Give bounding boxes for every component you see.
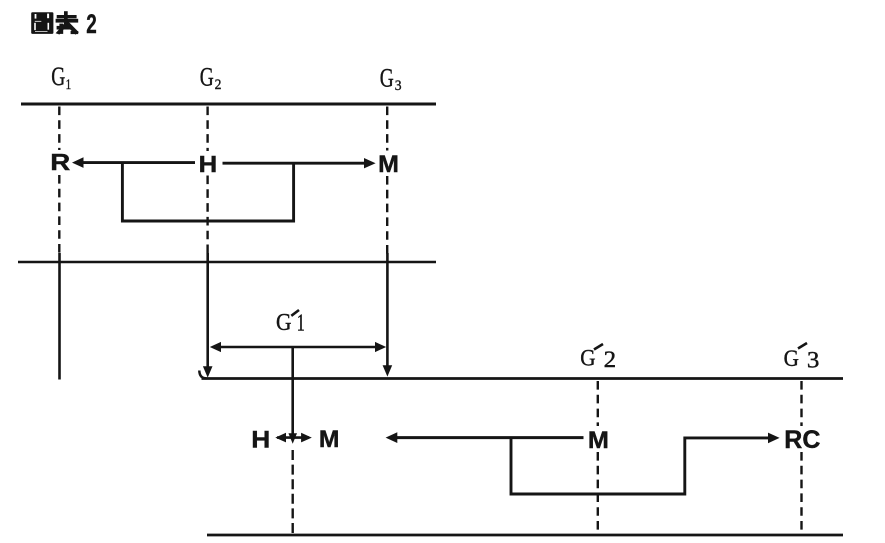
svg-text:2: 2 <box>86 9 97 39</box>
arrow M to left shaft <box>394 436 584 439</box>
timeline 3 left hook <box>199 371 206 379</box>
svg-text:2: 2 <box>604 347 617 372</box>
svg-text:G: G <box>784 346 799 371</box>
arrow M to left head <box>386 432 398 443</box>
dashed axis G2 lower <box>206 176 208 258</box>
timeline 2 <box>18 261 436 264</box>
svg-text:1: 1 <box>297 311 305 337</box>
timeline 3 <box>202 377 844 380</box>
twin arrow shaft <box>277 436 309 439</box>
accent of G'3 <box>798 343 807 349</box>
dashed axis mid lower <box>292 450 294 534</box>
label G'3 <box>784 346 820 372</box>
svg-text:M: M <box>588 427 609 454</box>
svg-text:G: G <box>200 63 214 92</box>
arrow H to M head <box>364 158 376 168</box>
svg-text:3: 3 <box>395 78 402 94</box>
loop under M and RC riser <box>511 438 770 494</box>
dashed axis G'2 upper <box>597 381 599 426</box>
twin arrow right head <box>301 433 312 443</box>
label G2 <box>200 63 222 94</box>
accent of G'1 <box>291 310 299 316</box>
solid drop G1 <box>58 253 61 380</box>
dashed axis G'2 lower <box>597 452 599 534</box>
accent of G'2 <box>594 344 603 350</box>
label G3 <box>380 64 402 95</box>
arrow to RC head <box>768 433 780 444</box>
loop under H <box>122 164 293 222</box>
solid drop G3 <box>386 253 389 367</box>
svg-text:H: H <box>251 427 270 454</box>
dashed axis G2 upper <box>206 107 208 152</box>
arrow H to R shaft <box>82 161 196 164</box>
title glyph 圖 <box>31 12 53 34</box>
title glyph 表 <box>56 11 79 34</box>
span arrow G'1 shaft <box>217 346 379 349</box>
svg-text:M: M <box>378 151 399 178</box>
span arrow left head <box>210 342 221 352</box>
svg-text:1: 1 <box>66 77 72 93</box>
dashed axis G1 upper <box>58 107 60 151</box>
arrow H to M shaft <box>223 162 367 165</box>
dashed axis G1 lower <box>58 175 60 257</box>
svg-text:RC: RC <box>784 426 820 454</box>
dashed axis G3 upper <box>386 107 388 151</box>
svg-text:G: G <box>380 64 394 93</box>
span arrow right head <box>375 342 386 352</box>
arrowhead down G3 <box>383 365 393 376</box>
svg-text:2: 2 <box>215 77 222 93</box>
svg-text:R: R <box>50 149 70 175</box>
arrow H to R head <box>72 157 84 168</box>
label G'2 <box>580 345 616 372</box>
label G'1 <box>276 310 305 336</box>
mid vertical H/M divider <box>291 347 294 435</box>
timeline 1 <box>21 103 436 106</box>
dashed axis G'3 lower <box>800 452 802 534</box>
twin arrow left head <box>275 433 286 443</box>
timeline 4 <box>207 534 843 537</box>
dashed axis G'3 upper <box>800 381 802 426</box>
svg-text:3: 3 <box>807 347 820 372</box>
svg-text:G: G <box>580 345 595 370</box>
svg-text:G: G <box>51 62 65 91</box>
svg-text:H: H <box>199 151 218 177</box>
solid drop G2 <box>206 253 209 368</box>
svg-text:M: M <box>319 426 340 453</box>
dashed axis G3 lower <box>386 176 388 257</box>
arrowhead down G2 <box>203 366 213 377</box>
svg-text:G: G <box>276 310 292 336</box>
label G1 <box>51 62 71 93</box>
mid vertical arrowhead down <box>288 433 297 444</box>
